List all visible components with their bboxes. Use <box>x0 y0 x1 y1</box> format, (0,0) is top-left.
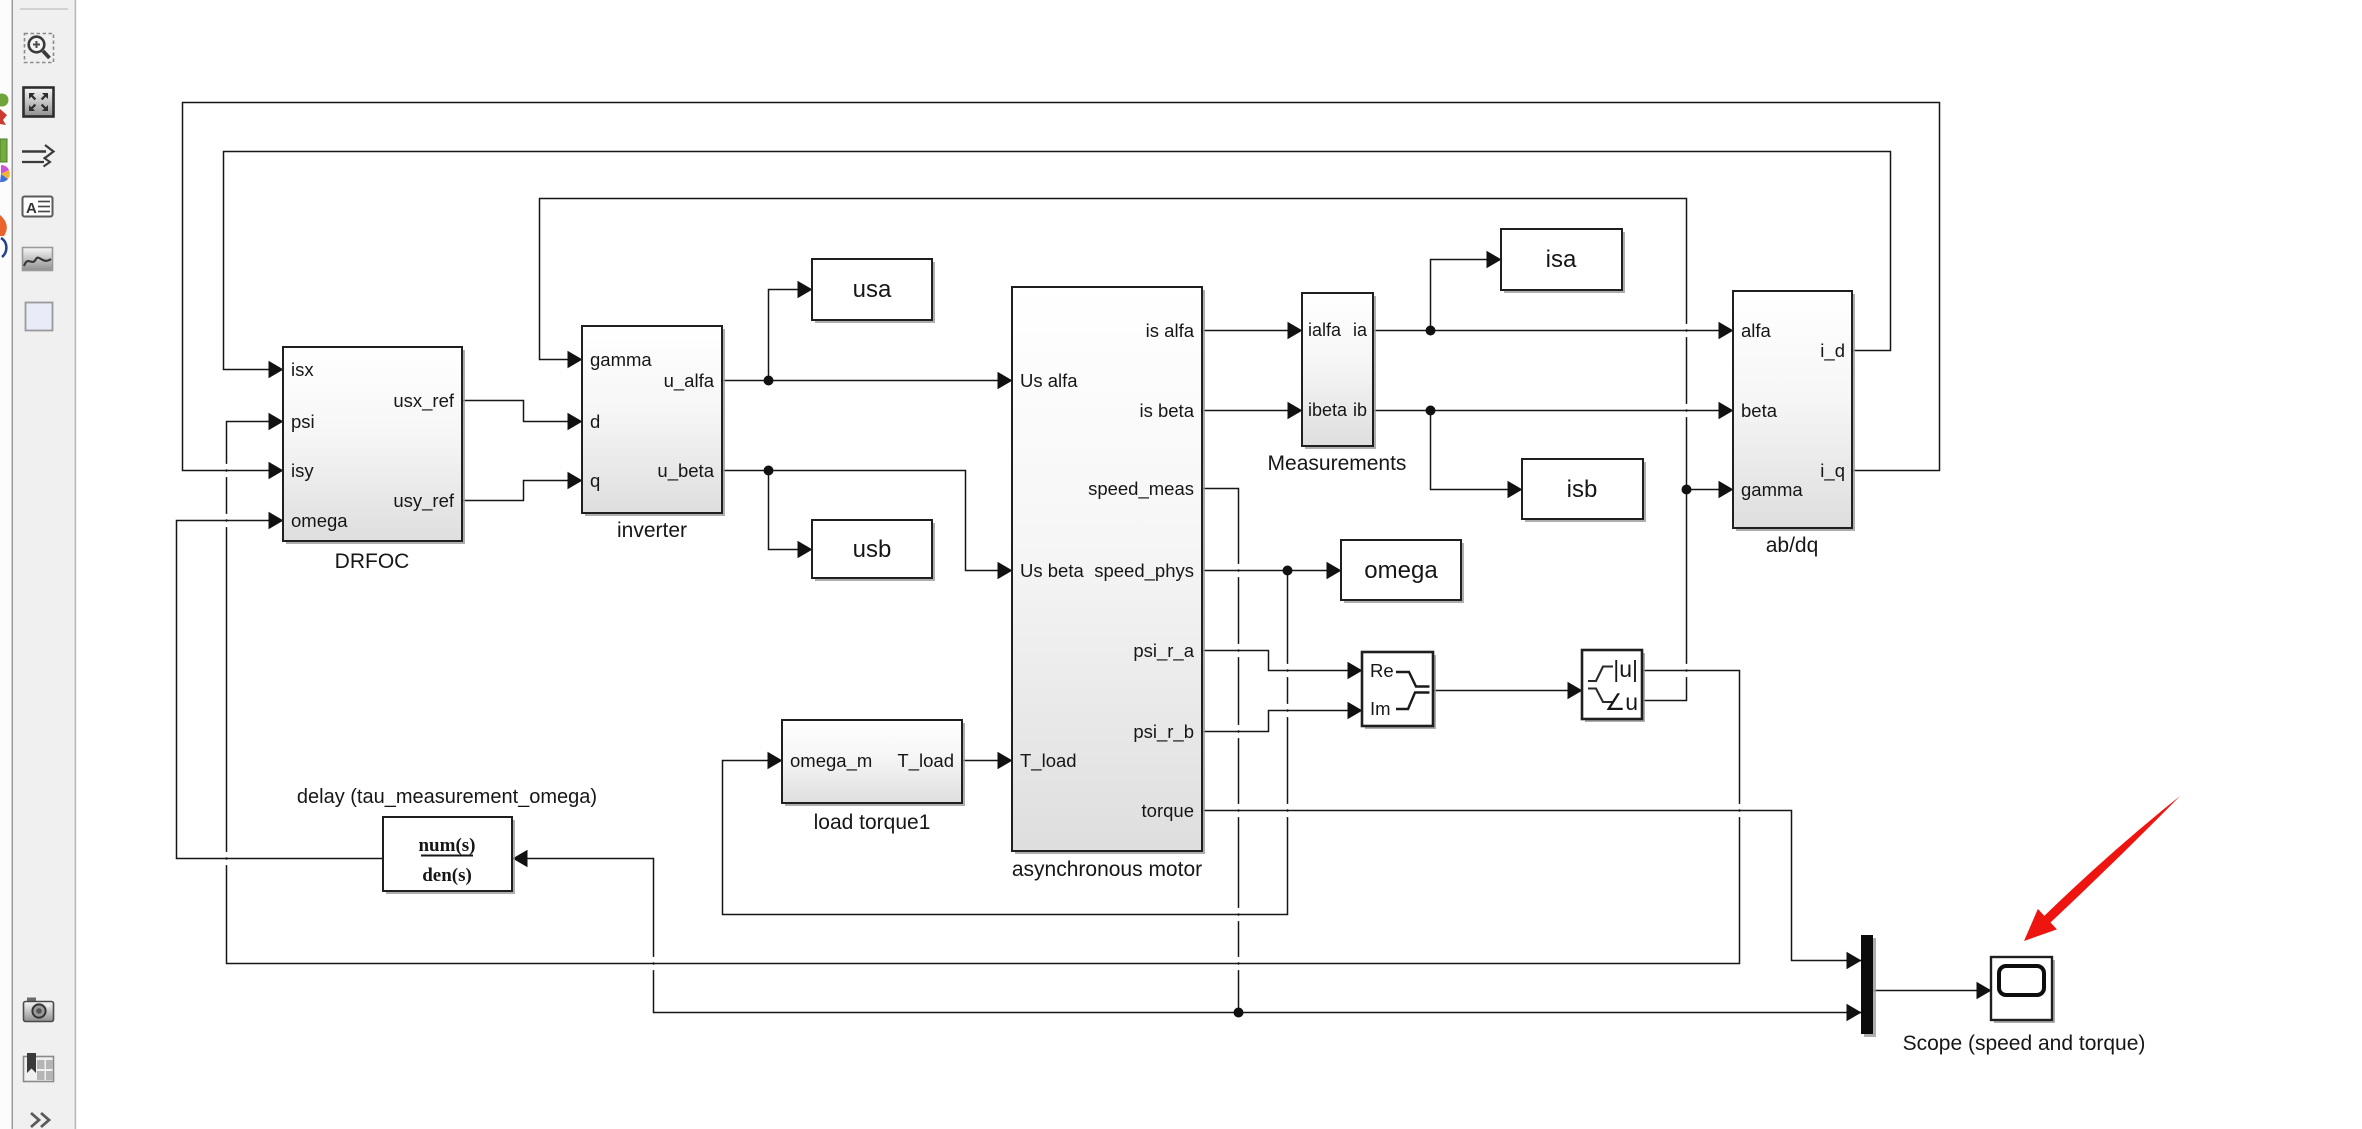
svg-text:|u|: |u| <box>1613 656 1638 682</box>
svg-text:isy: isy <box>291 460 314 481</box>
svg-text:load torque1: load torque1 <box>814 811 931 834</box>
svg-text:omega_m: omega_m <box>790 750 872 772</box>
svg-text:psi_r_b: psi_r_b <box>1133 721 1194 743</box>
svg-text:asynchronous motor: asynchronous motor <box>1012 858 1202 881</box>
svg-text:torque: torque <box>1142 800 1194 821</box>
svg-text:A: A <box>26 200 37 217</box>
svg-text:is beta: is beta <box>1139 400 1194 421</box>
svg-text:speed_phys: speed_phys <box>1094 560 1194 582</box>
svg-text:beta: beta <box>1741 400 1778 421</box>
svg-text:∠u: ∠u <box>1605 689 1638 715</box>
svg-text:Re: Re <box>1370 660 1394 681</box>
svg-text:num(s): num(s) <box>418 835 475 856</box>
svg-text:Measurements: Measurements <box>1268 452 1407 475</box>
svg-text:ib: ib <box>1353 400 1367 420</box>
svg-text:q: q <box>590 470 600 491</box>
svg-text:i_q: i_q <box>1820 460 1845 482</box>
svg-text:DRFOC: DRFOC <box>335 550 410 573</box>
svg-text:Im: Im <box>1370 698 1391 719</box>
svg-text:omega: omega <box>291 510 348 531</box>
svg-text:ia: ia <box>1353 320 1368 340</box>
svg-text:Us alfa: Us alfa <box>1020 370 1078 391</box>
svg-text:ibeta: ibeta <box>1308 400 1348 420</box>
svg-text:delay (tau_measurement_omega): delay (tau_measurement_omega) <box>297 786 597 808</box>
svg-text:gamma: gamma <box>1741 479 1803 500</box>
svg-text:alfa: alfa <box>1741 320 1772 341</box>
svg-text:psi_r_a: psi_r_a <box>1133 640 1194 662</box>
svg-text:usx_ref: usx_ref <box>393 390 455 412</box>
svg-text:u_beta: u_beta <box>657 460 714 482</box>
svg-text:usb: usb <box>853 536 892 563</box>
svg-text:isb: isb <box>1567 476 1598 503</box>
svg-text:omega: omega <box>1364 557 1438 584</box>
svg-text:i_d: i_d <box>1820 340 1845 362</box>
svg-text:d: d <box>590 411 600 432</box>
svg-text:Us beta: Us beta <box>1020 560 1084 581</box>
svg-text:isx: isx <box>291 359 314 380</box>
svg-text:is alfa: is alfa <box>1146 320 1195 341</box>
svg-text:T_load: T_load <box>897 750 954 772</box>
svg-text:T_load: T_load <box>1020 750 1077 772</box>
svg-text:den(s): den(s) <box>422 865 472 886</box>
svg-text:usy_ref: usy_ref <box>393 490 455 512</box>
svg-text:ab/dq: ab/dq <box>1766 534 1819 557</box>
svg-text:gamma: gamma <box>590 349 652 370</box>
svg-text:speed_meas: speed_meas <box>1088 478 1194 500</box>
svg-text:Scope (speed and torque): Scope (speed and torque) <box>1903 1032 2146 1055</box>
svg-text:ialfa: ialfa <box>1308 320 1342 340</box>
svg-text:usa: usa <box>853 276 892 303</box>
svg-text:isa: isa <box>1546 246 1577 273</box>
svg-text:psi: psi <box>291 411 315 432</box>
svg-text:u_alfa: u_alfa <box>664 370 715 392</box>
svg-text:inverter: inverter <box>617 519 687 542</box>
